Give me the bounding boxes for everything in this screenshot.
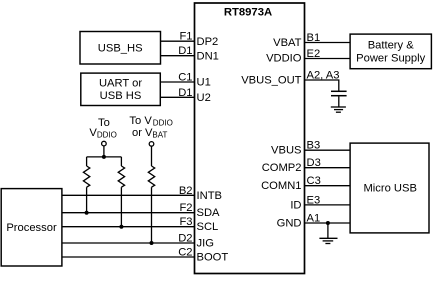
block Micro USB bbox=[350, 143, 429, 233]
svg-text:To V: To V bbox=[129, 115, 152, 127]
svg-text:Processor: Processor bbox=[6, 222, 57, 234]
svg-text:SCL: SCL bbox=[197, 221, 219, 233]
svg-text:D3: D3 bbox=[307, 157, 321, 169]
resistor R3 pull-up to VDDIO or VBAT bbox=[148, 146, 154, 243]
svg-text:VBAT: VBAT bbox=[273, 37, 302, 49]
IC U1 RT8973A body bbox=[195, 3, 305, 274]
block Processor bbox=[1, 189, 62, 266]
wire VDDIO bbox=[305, 58, 351, 60]
svg-text:SDA: SDA bbox=[197, 207, 221, 219]
wire VBAT bbox=[305, 42, 351, 44]
block UART or USB HS bbox=[81, 73, 161, 105]
svg-text:GND: GND bbox=[277, 218, 302, 230]
svg-text:COMP2: COMP2 bbox=[262, 162, 302, 174]
svg-text:U1: U1 bbox=[197, 77, 211, 89]
wire COMN1 bbox=[305, 185, 351, 187]
wire VBUS bbox=[305, 149, 351, 151]
wire DP2 bbox=[161, 40, 195, 42]
svg-text:USB_HS: USB_HS bbox=[98, 43, 143, 55]
junction on GND wire bbox=[326, 221, 330, 225]
svg-text:INTB: INTB bbox=[197, 190, 222, 202]
svg-text:F3: F3 bbox=[179, 216, 192, 228]
wire JIG bbox=[62, 242, 195, 244]
svg-text:C2: C2 bbox=[178, 247, 192, 259]
svg-text:JIG: JIG bbox=[197, 238, 214, 250]
svg-text:VDDIO: VDDIO bbox=[266, 52, 302, 64]
wire VBUS_OUT bbox=[305, 80, 339, 91]
label To VDDIO or VBAT bbox=[129, 115, 172, 139]
block Battery & Power Supply bbox=[350, 34, 431, 69]
svg-text:DP2: DP2 bbox=[197, 36, 219, 48]
junction R2 to SCL bbox=[119, 225, 123, 229]
wire VDDIO stem bbox=[103, 146, 105, 157]
svg-text:USB HS: USB HS bbox=[100, 90, 142, 102]
wire GND bbox=[305, 222, 351, 224]
resistor R2 pull-up to VDDIO bbox=[118, 157, 124, 227]
ground below capacitor bbox=[331, 107, 346, 112]
svg-text:B3: B3 bbox=[307, 140, 321, 152]
junction R1 to SDA bbox=[85, 211, 89, 215]
svg-text:ID: ID bbox=[290, 199, 301, 211]
svg-text:BAT: BAT bbox=[152, 130, 167, 139]
svg-text:A2, A3: A2, A3 bbox=[307, 70, 340, 82]
svg-text:D1: D1 bbox=[178, 45, 192, 57]
svg-text:B1: B1 bbox=[307, 32, 321, 44]
wire BOOT bbox=[62, 256, 195, 258]
wire VDDIO rail bbox=[87, 156, 122, 158]
wire U1 bbox=[160, 81, 194, 83]
wire INTB bbox=[62, 194, 195, 196]
node VDDIO or VBAT terminal circle bbox=[149, 142, 154, 147]
svg-text:COMN1: COMN1 bbox=[261, 180, 301, 192]
svg-text:Power Supply: Power Supply bbox=[356, 53, 425, 65]
junction R3 to JIG bbox=[150, 241, 154, 245]
svg-text:E3: E3 bbox=[307, 194, 321, 206]
junction on VDDIO rail bbox=[102, 155, 106, 159]
svg-text:E2: E2 bbox=[307, 48, 321, 60]
svg-text:F2: F2 bbox=[179, 202, 192, 214]
ground on GND net bbox=[319, 223, 337, 244]
svg-text:Micro USB: Micro USB bbox=[363, 183, 416, 195]
svg-text:A1: A1 bbox=[307, 213, 321, 225]
block USB_HS bbox=[80, 32, 161, 65]
svg-text:RT8973A: RT8973A bbox=[224, 6, 272, 18]
wire DN1 bbox=[161, 55, 195, 57]
wire SDA bbox=[62, 212, 195, 214]
wire U2 bbox=[160, 96, 194, 98]
svg-text:BOOT: BOOT bbox=[197, 252, 229, 264]
wire ID bbox=[305, 204, 351, 206]
svg-text:Battery &: Battery & bbox=[368, 39, 415, 51]
svg-text:DDIO: DDIO bbox=[153, 119, 173, 128]
svg-text:D2: D2 bbox=[178, 233, 192, 245]
svg-text:UART or: UART or bbox=[99, 78, 142, 90]
svg-text:F1: F1 bbox=[179, 31, 192, 43]
wire SCL bbox=[62, 226, 195, 228]
svg-text:B2: B2 bbox=[179, 185, 193, 197]
svg-text:or V: or V bbox=[132, 127, 153, 139]
svg-text:DN1: DN1 bbox=[197, 50, 219, 62]
svg-text:DDIO: DDIO bbox=[97, 131, 117, 140]
svg-text:C1: C1 bbox=[178, 72, 192, 84]
resistor R1 pull-up to VDDIO bbox=[83, 157, 89, 213]
capacitor C1 bbox=[331, 91, 347, 107]
label To VDDIO bbox=[89, 117, 117, 140]
wire COMP2 bbox=[305, 167, 351, 169]
svg-text:D1: D1 bbox=[178, 87, 192, 99]
svg-text:C3: C3 bbox=[307, 175, 321, 187]
node VDDIO terminal circle bbox=[102, 141, 107, 146]
svg-text:VBUS_OUT: VBUS_OUT bbox=[241, 74, 301, 86]
svg-text:U2: U2 bbox=[197, 92, 211, 104]
svg-text:To: To bbox=[98, 117, 110, 129]
svg-text:VBUS: VBUS bbox=[271, 145, 301, 157]
